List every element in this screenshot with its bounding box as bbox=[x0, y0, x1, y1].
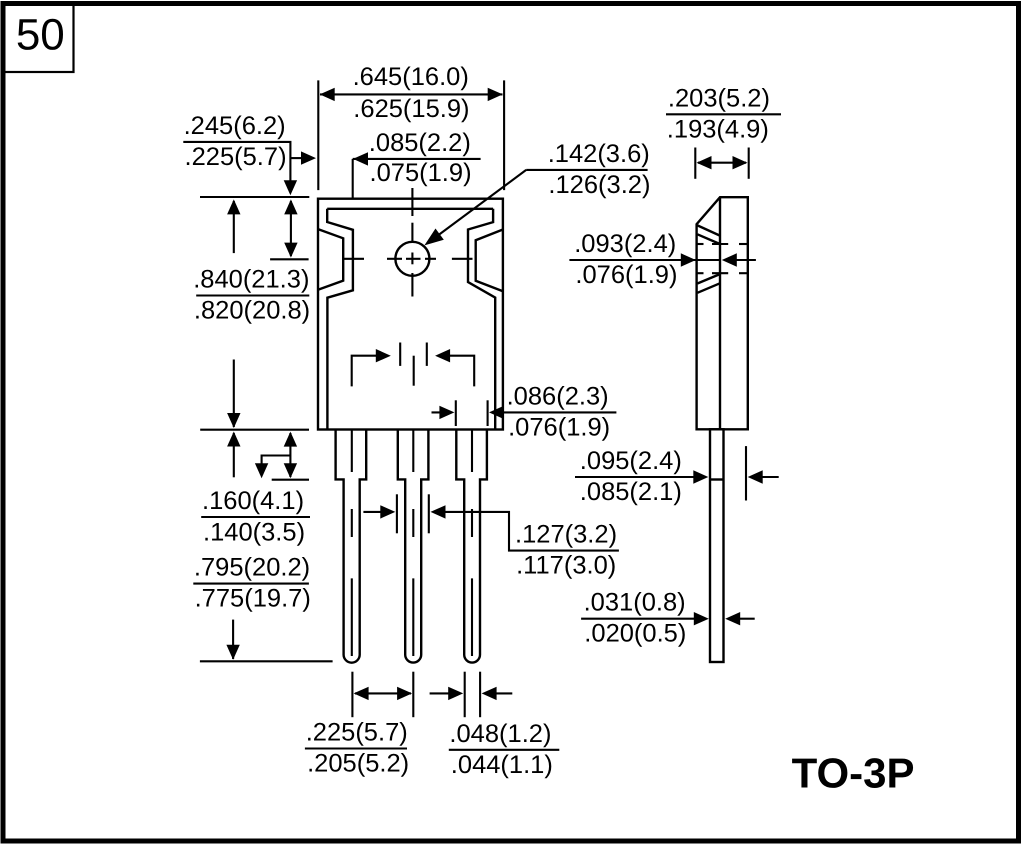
dim .142 fraction line bbox=[526, 169, 647, 171]
svg-text:.031(0.8): .031(0.8) bbox=[584, 589, 686, 617]
side view lower dashed gauge line bbox=[698, 272, 704, 274]
side view body outline bbox=[697, 197, 748, 429]
front view left edge notch bbox=[318, 229, 343, 290]
dim .093 right arrow bbox=[736, 259, 756, 261]
dim .840 fraction line bbox=[196, 294, 309, 296]
side view lower chamfer hatch line 2 bbox=[697, 283, 720, 293]
svg-text:.225(5.7): .225(5.7) bbox=[185, 143, 287, 171]
body bottom extension line bbox=[200, 429, 309, 431]
dim .048 left arrow bbox=[430, 692, 450, 694]
svg-text:.075(1.9): .075(1.9) bbox=[370, 159, 472, 187]
dim .160 jog leader with second arrow bbox=[262, 456, 291, 467]
dim .086 left witness bar bbox=[455, 400, 457, 426]
svg-text:.193(4.9): .193(4.9) bbox=[667, 115, 769, 143]
svg-text:.085(2.1): .085(2.1) bbox=[580, 478, 682, 506]
dim .048 right arrow bbox=[496, 692, 513, 694]
dim .245 fraction line and elbow leader bbox=[183, 142, 290, 193]
lead 3 (front view) outline bbox=[456, 430, 487, 663]
lead 2 (front view) center line dashes bbox=[412, 431, 414, 473]
lead 2 (front view) outline bbox=[398, 430, 429, 663]
dim .160 dimension line with arrows bbox=[289, 433, 291, 477]
dim .086 right witness bar bbox=[487, 400, 489, 426]
front view inner left contour bbox=[327, 209, 353, 430]
dim .085 fraction line with left arrow bbox=[353, 158, 481, 160]
svg-text:.127(3.2): .127(3.2) bbox=[515, 521, 617, 549]
dim .095 right witness bar bbox=[745, 446, 747, 500]
svg-text:.775(19.7): .775(19.7) bbox=[195, 585, 311, 613]
dim .225 dimension line with arrows bbox=[355, 692, 411, 694]
side view lead outline bbox=[710, 429, 724, 662]
svg-text:.140(3.5): .140(3.5) bbox=[203, 519, 305, 547]
lead 1 (front view) center line dashes bbox=[351, 431, 353, 473]
dim .127 left witness bar bbox=[396, 494, 398, 533]
front view inner top edge line bbox=[327, 208, 493, 210]
svg-text:.795(20.2): .795(20.2) bbox=[194, 554, 310, 582]
svg-text:.142(3.6): .142(3.6) bbox=[548, 140, 650, 168]
front view body outline bbox=[318, 199, 503, 430]
hole center extension line bbox=[270, 258, 309, 260]
dim .225 right witness bar bbox=[412, 672, 414, 718]
dim .093 fraction line with right arrow bbox=[569, 259, 720, 261]
lead 3 (front view) center line dashes bbox=[471, 431, 473, 473]
dim .203 left witness bar bbox=[694, 148, 696, 179]
lead 1 (front view) outline bbox=[336, 430, 367, 663]
dim .203 right witness bar bbox=[748, 148, 750, 179]
svg-text:.085(2.2): .085(2.2) bbox=[369, 129, 471, 157]
dim .095 fraction line with right arrow bbox=[575, 476, 694, 478]
svg-text:.203(5.2): .203(5.2) bbox=[668, 84, 770, 112]
dim .031 right arrow bbox=[739, 618, 755, 620]
svg-text:50: 50 bbox=[16, 10, 65, 59]
svg-text:TO-3P: TO-3P bbox=[792, 749, 915, 796]
svg-text:.820(20.8): .820(20.8) bbox=[194, 297, 310, 325]
dim .127 right witness bar bbox=[428, 494, 430, 533]
dim .142 diagonal leader to hole bbox=[437, 170, 526, 236]
svg-text:.093(2.4): .093(2.4) bbox=[574, 230, 676, 258]
side view lead gauge tick bbox=[710, 478, 724, 480]
svg-text:.020(0.5): .020(0.5) bbox=[584, 620, 686, 648]
side view upper chamfer hatch line 1 bbox=[697, 225, 720, 235]
dim .795 fraction line bbox=[193, 583, 309, 585]
dim .048 left witness bar bbox=[464, 672, 466, 718]
dim .048 fraction line bbox=[449, 749, 560, 751]
page number box bbox=[4, 4, 74, 72]
lead end extension line bbox=[200, 660, 333, 662]
dim .203 fraction line bbox=[666, 113, 781, 115]
dim .095 right arrow bbox=[761, 476, 779, 478]
dim .645 right witness line bbox=[503, 80, 505, 190]
mounting hole horizontal center line dashes bbox=[343, 258, 364, 260]
dim .127 left arrow bbox=[363, 511, 382, 513]
dim .048 right witness bar bbox=[479, 672, 481, 718]
dim .795 lower arrow bbox=[232, 620, 234, 659]
in-body dim center tick bbox=[413, 356, 415, 386]
in-body dim right witness bar bbox=[426, 343, 428, 366]
dim .127 right arrow with elbow leader bbox=[445, 512, 619, 551]
svg-text:.076(1.9): .076(1.9) bbox=[508, 414, 610, 442]
side view upper chamfer hatch line 2 bbox=[697, 234, 720, 244]
dim .086 left arrow bbox=[432, 411, 451, 413]
svg-text:.095(2.4): .095(2.4) bbox=[580, 447, 682, 475]
dim .795 upper arrow bbox=[233, 433, 235, 477]
svg-text:.645(16.0): .645(16.0) bbox=[353, 63, 469, 91]
dim .225 left witness bar bbox=[351, 672, 353, 718]
svg-text:.117(3.0): .117(3.0) bbox=[516, 552, 616, 580]
side view upper dashed gauge line bbox=[698, 243, 704, 245]
front view vertical center line dashes bbox=[411, 188, 413, 216]
dim .645 dimension line with arrows bbox=[320, 93, 503, 95]
svg-text:.126(3.2): .126(3.2) bbox=[548, 171, 650, 199]
in-body dim left witness bar bbox=[399, 343, 401, 366]
svg-text:.086(2.3): .086(2.3) bbox=[507, 382, 609, 410]
svg-text:.225(5.7): .225(5.7) bbox=[306, 719, 408, 747]
dim .085 extension line to body top bbox=[352, 159, 354, 199]
svg-text:.076(1.9): .076(1.9) bbox=[575, 261, 677, 289]
side view inner vertical line bbox=[719, 197, 721, 429]
lead shoulder extension line bbox=[272, 479, 309, 481]
dim .245 vertical dimension line with arrows bbox=[290, 201, 292, 256]
dim .245 right-pointing arrow to body edge bbox=[290, 157, 303, 159]
svg-text:.840(21.3): .840(21.3) bbox=[193, 266, 309, 294]
side view lower chamfer hatch line 1 bbox=[697, 274, 720, 283]
in-body dim left corner leader bbox=[352, 356, 377, 387]
svg-text:.205(5.2): .205(5.2) bbox=[307, 750, 409, 778]
body top extension line bbox=[200, 196, 309, 198]
dim .031 fraction line with right arrow bbox=[581, 618, 694, 620]
dim .086 fraction line with left arrow bbox=[503, 411, 616, 413]
dim .225 bottom fraction line bbox=[305, 747, 407, 749]
svg-text:.044(1.1): .044(1.1) bbox=[451, 751, 553, 779]
dim .203 dimension line with arrows bbox=[698, 162, 746, 164]
dim .840 upper arrow bbox=[233, 201, 235, 253]
dim .840 lower arrow bbox=[233, 360, 235, 428]
in-body dim right corner leader bbox=[449, 356, 474, 387]
front view inner right contour bbox=[468, 209, 495, 430]
svg-text:.048(1.2): .048(1.2) bbox=[449, 720, 551, 748]
svg-text:.160(4.1): .160(4.1) bbox=[202, 487, 304, 515]
mounting hole circle bbox=[395, 242, 429, 276]
front view right edge notch bbox=[476, 230, 503, 292]
dim .142 leader arrowhead at hole bbox=[424, 229, 443, 246]
dim .645 left witness line bbox=[317, 80, 319, 190]
svg-text:.245(6.2): .245(6.2) bbox=[184, 112, 286, 140]
svg-text:.625(15.9): .625(15.9) bbox=[353, 95, 469, 123]
